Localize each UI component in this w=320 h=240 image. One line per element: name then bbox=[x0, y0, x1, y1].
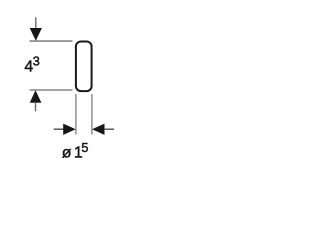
svg-text:3: 3 bbox=[33, 54, 40, 69]
svg-text:ø: ø bbox=[62, 144, 72, 161]
svg-text:5: 5 bbox=[81, 140, 88, 155]
